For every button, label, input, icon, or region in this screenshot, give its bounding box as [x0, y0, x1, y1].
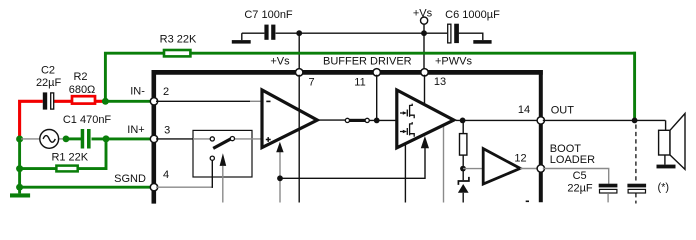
zener diode: [458, 184, 469, 193]
svg-text:7: 7: [308, 77, 314, 89]
svg-text:13: 13: [434, 76, 446, 88]
control line into op-amp: [279, 152, 281, 203]
wire: pin 11 down: [376, 75, 378, 121]
pin 3 (IN+): [150, 135, 157, 142]
wire: inverting input lead: [250, 100, 261, 102]
wire: C7 ground stub: [241, 33, 243, 40]
wire: pin 3 to mute switch box: [156, 138, 193, 140]
svg-text:R3 22K: R3 22K: [160, 34, 197, 46]
svg-text:14: 14: [518, 104, 530, 116]
node bus-R1 junction: [16, 165, 23, 172]
wire: pin 2 to op-amp inverting input: [156, 100, 250, 102]
resistor R1: [56, 166, 77, 172]
svg-text:IN-: IN-: [130, 86, 145, 98]
svg-text:22µF: 22µF: [36, 77, 62, 89]
optional capacitor (*): [627, 184, 646, 193]
node bus-source junction: [16, 136, 23, 143]
node IN- junction: [102, 98, 109, 105]
minus mark: [266, 100, 270, 102]
mosfet icon upper: [400, 104, 414, 119]
wire: boot node to zener: [462, 169, 464, 181]
svg-text:BUFFER DRIVER: BUFFER DRIVER: [323, 55, 412, 67]
ground (input): [10, 193, 30, 197]
IC U1 box left edge: [152, 70, 157, 204]
mute control line: [222, 166, 224, 203]
svg-text:OUT: OUT: [551, 105, 575, 117]
resistor R3: [164, 50, 190, 56]
mute switch box: [193, 130, 252, 177]
node bus-SGND junction: [16, 184, 23, 191]
op-amp input stage: [262, 90, 317, 148]
ground (C6): [473, 40, 491, 44]
svg-text:4: 4: [163, 169, 169, 181]
node pin 11 junction: [374, 118, 380, 124]
svg-text:R1 22K: R1 22K: [51, 152, 88, 164]
wire: pin 12 to C5: [543, 169, 609, 184]
svg-text:LOADER: LOADER: [550, 154, 595, 166]
series switch contact left: [345, 118, 349, 122]
wire: bus to R1: [21, 167, 56, 170]
node C7 rail junction: [296, 30, 302, 36]
pin 4 (SGND): [150, 184, 157, 191]
wire: switch to buffer driver: [369, 119, 397, 121]
wire: driver rail down: [404, 143, 406, 203]
svg-text:C6 1000µF: C6 1000µF: [445, 9, 500, 21]
svg-text:C1 470nF: C1 470nF: [63, 114, 112, 126]
wire: OUT line to speaker: [543, 119, 666, 121]
wire: pin 4 to mute switch contact: [156, 186, 212, 188]
svg-text:12: 12: [514, 153, 526, 165]
node IN+ junction: [103, 135, 110, 142]
svg-text:C2: C2: [41, 65, 55, 77]
svg-text:(*): (*): [657, 181, 669, 193]
wire: pin 13 down: [424, 75, 426, 105]
capacitor C2 (polarized): [43, 92, 54, 109]
speaker horn: [670, 114, 685, 170]
wire: rail to pin 7: [298, 33, 300, 70]
node boot junction: [460, 166, 466, 172]
pin 12 (BOOT LOADER): [537, 165, 544, 172]
zener diode cathode bar: [458, 177, 469, 185]
svg-text:11: 11: [354, 77, 365, 89]
pin 14 (OUT): [537, 117, 544, 124]
wire: IN- node to pin 2: [105, 100, 151, 103]
switch contact left: [210, 137, 214, 141]
node OUT junction: [632, 118, 638, 124]
svg-text:C5: C5: [573, 170, 587, 182]
svg-text:C7 100nF: C7 100nF: [244, 9, 293, 21]
wire: C1 to pin 3: [92, 137, 152, 140]
wire: +Vs supply rail (top): [242, 33, 483, 40]
wire: op-amp out to switch: [319, 119, 345, 121]
control arrow into driver: [421, 136, 429, 148]
wire: feedback drop at OUT: [633, 52, 636, 121]
stray mark (cropped symbol): [526, 201, 529, 203]
wire: pin 7 rail down: [298, 75, 300, 203]
mosfet icon lower: [400, 122, 414, 137]
node control junction: [277, 175, 283, 181]
wire: R1 to IN+ node: [78, 140, 106, 169]
svg-text:R2: R2: [73, 71, 87, 83]
capacitor C5 (polarized): [599, 184, 618, 193]
wire: buffer to pin 12: [520, 168, 539, 170]
plus mark: [266, 137, 271, 142]
dashed stub below optional capacitor: [635, 193, 637, 203]
svg-text:2: 2: [163, 86, 169, 98]
pin 11: [373, 69, 380, 76]
+Vs supply terminal: [421, 17, 428, 70]
ground (C7): [232, 40, 251, 44]
svg-text:SGND: SGND: [114, 173, 146, 185]
wire: C5 stub down: [607, 193, 609, 202]
boot loader buffer: [483, 149, 520, 184]
capacitor C6 (polarized): [448, 24, 459, 43]
wire: control feed to driver: [280, 148, 425, 178]
switch contact lower: [210, 156, 214, 160]
wire: source to C1: [66, 137, 81, 140]
ground (speaker): [657, 165, 676, 169]
mute control arrow: [220, 153, 227, 166]
capacitor C1: [81, 129, 91, 149]
svg-text:IN+: IN+: [127, 124, 144, 136]
node driver output: [460, 118, 466, 124]
svg-text:680Ω: 680Ω: [69, 84, 96, 96]
pin 7 (+Vs): [296, 69, 303, 76]
series switch bar: [349, 119, 365, 122]
wire: red input feed: [20, 101, 43, 137]
svg-text:3: 3: [164, 124, 170, 136]
wire: R2 to IN- node: [95, 100, 105, 103]
wire: feedback line to OUT: [190, 52, 636, 55]
svg-text:+Vs: +Vs: [413, 8, 433, 20]
speaker driver body: [659, 130, 670, 155]
switch arm (mute): [213, 138, 232, 148]
wire: riser to lower contact: [211, 160, 213, 188]
resistor internal bootstrap: [460, 134, 467, 156]
AC source: [21, 130, 66, 149]
wire: zener anode down: [462, 193, 464, 203]
IC U1 box top edge: [152, 70, 543, 75]
buffer driver power stage: [397, 90, 454, 148]
pin 13 (+PWVs): [421, 69, 428, 76]
dashed optional branch: [635, 125, 637, 184]
wire: C2 to R2: [54, 100, 72, 103]
wire: driver bias down: [443, 126, 445, 203]
wire: speaker feed stub: [665, 120, 667, 130]
node source output: [63, 136, 70, 143]
control arrow into op-amp: [276, 142, 283, 152]
capacitor C7: [264, 25, 275, 40]
node +Vs junction: [421, 30, 427, 36]
wire: feedback riser to R3: [105, 53, 164, 101]
svg-text:22µF: 22µF: [567, 183, 593, 195]
wire: resistor to boot node: [462, 155, 464, 169]
pin 2 (IN-): [150, 98, 157, 105]
wire: output node down: [462, 120, 464, 133]
resistor R2: [72, 96, 95, 103]
wire: boot node to buffer: [463, 168, 483, 170]
wire: left ground bus: [18, 136, 21, 193]
switch contact right: [230, 137, 234, 141]
svg-text:+PWVs: +PWVs: [435, 56, 472, 68]
wire: driver out to pin 14: [456, 119, 539, 121]
svg-text:+Vs: +Vs: [270, 56, 290, 68]
wire: speaker ground stub: [664, 155, 666, 165]
wire: switch contact leads: [193, 138, 261, 140]
wire: SGND to pin 4: [21, 186, 152, 189]
IC U1 box right edge: [539, 70, 543, 202]
series switch contact right: [365, 118, 369, 122]
